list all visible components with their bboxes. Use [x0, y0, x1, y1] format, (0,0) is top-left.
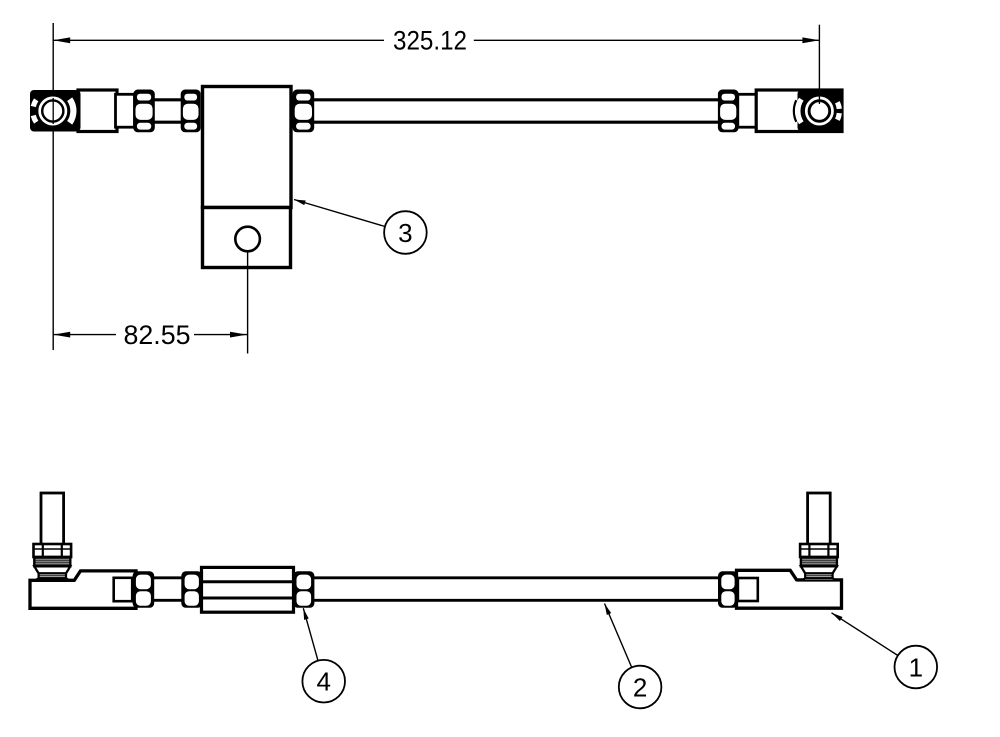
- top view: right rod end clevis: [756, 90, 842, 132]
- top view: left rod end stub: [116, 94, 135, 127]
- top view: left rod end shank: [78, 90, 117, 132]
- svg-text:1: 1: [909, 652, 923, 682]
- top view: left ball housing (dark square): [30, 90, 81, 132]
- bottom rod segment between nuts: [154, 576, 182, 579]
- right ball: [809, 101, 829, 121]
- svg-text:2: 2: [633, 672, 647, 702]
- right housing white ring: [806, 98, 832, 124]
- extension line over left ball: [52, 98, 54, 124]
- left body thread boss rect: [114, 578, 133, 601]
- dimension line 82.55: [53, 334, 116, 336]
- bottom view: long rod (item 2): [314, 576, 719, 579]
- svg-text:3: 3: [398, 218, 412, 248]
- balloon 3 leader: [294, 200, 385, 227]
- top view: hex jam nut A: [133, 90, 155, 133]
- bottom view: right rod end body (item 1): [737, 570, 842, 608]
- balloon 1 leader: [832, 613, 898, 656]
- right body thread boss rect: [738, 578, 758, 601]
- top view rod segment between nuts: [154, 98, 182, 101]
- svg-text:325.12: 325.12: [393, 26, 467, 56]
- bottom view: right jam nut: [718, 571, 738, 608]
- center block (item 3) upper body: [203, 87, 292, 208]
- center block lower body: [203, 208, 291, 268]
- balloon 3: [384, 211, 427, 254]
- left housing white ring: [40, 98, 66, 124]
- extension line from block hole: [247, 252, 249, 354]
- bottom view: sleeve right hex nut: [293, 571, 314, 608]
- bottom view: left ball stud: [41, 493, 64, 545]
- svg-text:82.55: 82.55: [124, 320, 191, 350]
- left ball: [42, 101, 63, 122]
- dimension line 325.12: [53, 39, 384, 41]
- block hole: [235, 227, 260, 252]
- top view: right ball housing (dark square): [798, 90, 843, 132]
- balloon 4: [302, 660, 345, 703]
- bottom view: jam nut 1: [133, 571, 155, 608]
- left housing white crescent arc: [70, 99, 74, 123]
- top view: right hex nut: [718, 90, 739, 133]
- balloon 2: [619, 666, 662, 709]
- bottom view: adjuster sleeve (item 4): [202, 567, 294, 612]
- top view: hex jam nut B: [181, 90, 201, 133]
- right socket arcs in clevis: [798, 101, 801, 122]
- balloon 2 leader: [605, 604, 632, 668]
- right housing white crescent: [798, 99, 802, 123]
- extension line left (through left ball center): [52, 23, 54, 350]
- top view long rod (item 2, top): [314, 98, 719, 101]
- top view: hex nut C right of block: [293, 90, 315, 133]
- svg-text:4: 4: [316, 667, 330, 697]
- bottom view: left rod end body (item on left): [30, 571, 136, 608]
- bottom view: right ball stud: [808, 493, 831, 545]
- bottom view: jam nut 2: [181, 571, 202, 608]
- extension line over right ball: [818, 90, 820, 104]
- top view: right rod end stub: [738, 94, 757, 127]
- balloon 4 leader: [303, 608, 318, 661]
- extension line right (through right ball center): [818, 25, 820, 104]
- balloon 1: [895, 646, 938, 689]
